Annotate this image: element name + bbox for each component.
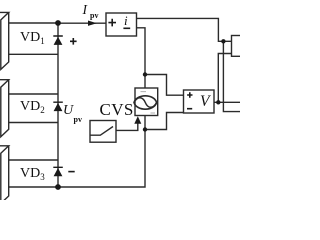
diode VD3 <box>53 167 63 177</box>
voltmeter plus sign <box>187 92 192 97</box>
wire ammeter bottom out down to CVS top <box>137 28 146 88</box>
CVS tiny top label <box>141 92 156 113</box>
node F voltmeter node <box>216 100 220 104</box>
diode VD2 <box>53 102 63 112</box>
label ammeter i <box>124 13 128 29</box>
PV panel 1 <box>0 12 9 69</box>
label Ipv <box>83 2 88 18</box>
label VD3 <box>20 166 45 182</box>
CVS source box <box>135 88 158 116</box>
node A top string node <box>55 20 61 26</box>
CVS tiny bottom label <box>151 112 156 114</box>
node D cvs bottom node <box>143 127 147 131</box>
plus sign right of VD1 <box>68 19 192 172</box>
wire panel2 bottom stub <box>9 122 58 124</box>
wire panel3 bottom stub <box>9 186 58 188</box>
wire CVS bottom node to voltmeter minus <box>145 113 184 130</box>
wire panel2 top stub <box>9 93 58 95</box>
node C cvs top node <box>143 72 147 76</box>
voltmeter U3 box <box>184 90 215 113</box>
voltmeter minus sign <box>187 108 192 110</box>
label VD2 <box>20 99 45 115</box>
PV panel 3 <box>0 146 9 204</box>
step block box <box>90 121 116 143</box>
wire load bottom to voltmeter node <box>218 54 231 103</box>
load box right edge <box>232 36 246 57</box>
node B bottom string node <box>55 184 61 190</box>
CVS sine wave <box>134 98 157 108</box>
CVS control arrow head <box>134 116 141 124</box>
wire node to voltmeter plus <box>145 75 184 96</box>
PV panel 2 <box>0 80 9 137</box>
wire top node to ammeter with Ipv arrow <box>58 22 106 24</box>
CVS source ellipse <box>134 96 157 109</box>
wire ammeter top out to load <box>137 18 232 41</box>
label voltmeter V <box>200 93 209 111</box>
wire load node down and right <box>223 41 240 111</box>
node E load top node <box>221 39 225 43</box>
wire diode bus <box>57 23 59 187</box>
step block symbol <box>91 127 114 136</box>
label Upv <box>63 103 73 119</box>
minus sign right of VD3 <box>68 171 74 173</box>
wire step block to arrow riser <box>116 123 138 131</box>
wire voltmeter right out <box>214 101 240 103</box>
Ipv arrow head <box>88 21 97 26</box>
ammeter plus sign <box>108 19 116 27</box>
wire CVS bottom to bottom bus return <box>58 116 145 188</box>
wire panel1 bottom stub <box>9 53 58 55</box>
diode VD1 <box>53 35 63 45</box>
label VD1 <box>20 30 45 46</box>
ammeter minus sign <box>123 27 130 29</box>
label CVS <box>100 100 134 120</box>
wire panel1 top stub <box>9 22 58 24</box>
wire panel3 top stub <box>9 159 58 161</box>
ammeter U2 box <box>106 13 137 36</box>
